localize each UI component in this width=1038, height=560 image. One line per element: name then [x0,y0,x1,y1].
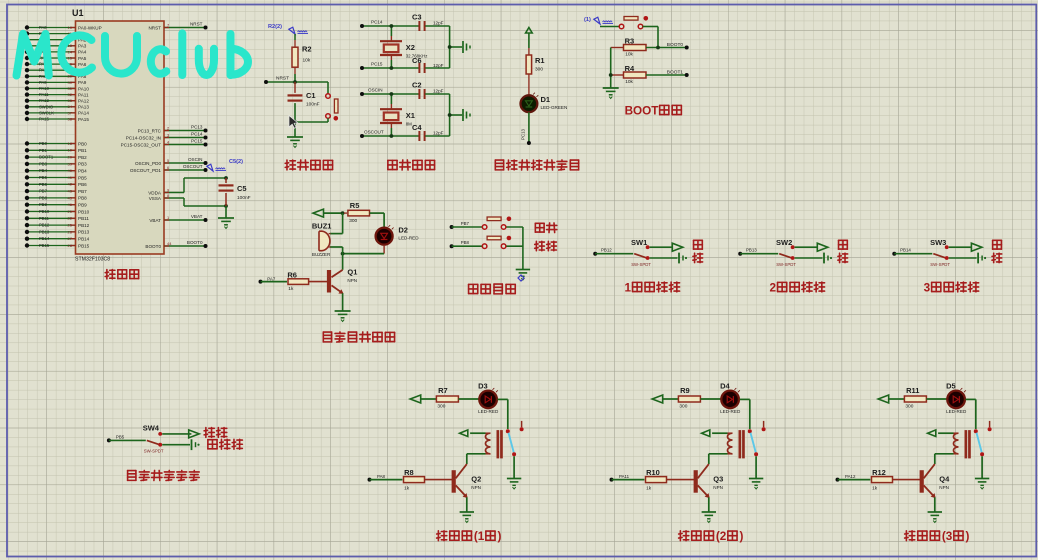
svg-text:Q1: Q1 [347,268,357,277]
svg-text:PB12: PB12 [39,223,50,228]
svg-text:PB8: PB8 [78,196,87,201]
svg-text:39: 39 [68,161,73,166]
svg-text:R8: R8 [404,468,414,477]
svg-text:BOOT0: BOOT0 [187,240,203,245]
svg-text:C1: C1 [306,91,316,100]
svg-text:PB5: PB5 [39,175,48,180]
svg-text:BOOT1: BOOT1 [667,69,684,75]
svg-text:OSCIN_PD0: OSCIN_PD0 [135,161,161,166]
svg-text:PB7: PB7 [461,221,470,226]
svg-text:PB1: PB1 [39,148,48,153]
svg-text:27: 27 [68,236,73,241]
svg-text:PB3: PB3 [78,162,87,167]
svg-text:SW1: SW1 [631,238,647,247]
svg-text:NRST: NRST [276,76,289,82]
svg-text:PB15: PB15 [39,243,50,248]
svg-text:PB8: PB8 [39,195,48,200]
svg-text:C6: C6 [412,56,422,65]
svg-text:PA12: PA12 [845,474,856,479]
svg-text:45: 45 [68,195,73,200]
svg-text:28: 28 [68,243,73,248]
svg-text:100nF: 100nF [237,195,251,201]
svg-text:PB9: PB9 [39,202,48,207]
svg-text:PB6: PB6 [39,182,48,187]
svg-text:SW-SPDT: SW-SPDT [144,449,164,454]
svg-text:PA15: PA15 [78,117,89,122]
svg-text:LED-RED: LED-RED [478,409,499,414]
svg-text:R10: R10 [646,468,660,477]
svg-text:BOOT0: BOOT0 [667,42,684,48]
svg-text:R11: R11 [906,386,919,395]
svg-text:PA5: PA5 [78,56,87,61]
svg-text:PB3: PB3 [39,161,48,166]
svg-text:R2: R2 [302,45,312,54]
svg-text:VBAT: VBAT [191,214,203,219]
svg-text:X2: X2 [406,43,415,52]
svg-text:PA14: PA14 [78,111,89,116]
svg-text:PC14-OSC32_IN: PC14-OSC32_IN [126,135,161,140]
svg-text:STM32F103C8: STM32F103C8 [75,257,110,263]
svg-text:PA11: PA11 [619,474,630,479]
svg-text:PA0: PA0 [39,25,47,30]
svg-text:PB0: PB0 [39,141,48,146]
svg-text:19: 19 [68,148,73,153]
svg-text:PB10: PB10 [78,209,90,214]
svg-text:NPN: NPN [347,278,357,283]
svg-text:PB0: PB0 [78,141,87,146]
svg-text:PA10: PA10 [78,86,89,91]
svg-text:PC14: PC14 [371,20,383,25]
svg-text:37: 37 [68,110,73,115]
svg-text:NPN: NPN [471,485,481,490]
svg-text:NPN: NPN [713,485,723,490]
svg-text:Q4: Q4 [939,474,950,483]
svg-text:PB13: PB13 [78,230,90,235]
svg-text:): ) [966,530,970,543]
svg-text:PA7: PA7 [267,276,276,281]
svg-text:PB4: PB4 [78,169,87,174]
svg-text:LED-RED: LED-RED [398,236,419,241]
svg-text:18: 18 [68,141,73,146]
svg-text:20: 20 [68,155,73,160]
svg-text:SWCLK: SWCLK [39,110,54,115]
svg-text:SW-SPDT: SW-SPDT [631,262,651,267]
svg-text:PA3: PA3 [78,44,87,49]
svg-text:(3: (3 [942,530,953,543]
svg-text:OSCIN: OSCIN [188,157,203,162]
svg-text:D5: D5 [946,381,956,390]
svg-text:R3: R3 [625,37,635,46]
svg-text:BOOT1: BOOT1 [39,155,54,160]
svg-text:26: 26 [68,229,73,234]
svg-text:C3: C3 [412,13,422,22]
svg-text:C5: C5 [237,184,247,193]
svg-text:): ) [498,530,502,543]
svg-text:PB2: PB2 [78,155,87,160]
svg-text:PB10: PB10 [39,209,50,214]
svg-text:Q2: Q2 [471,474,481,483]
svg-text:32: 32 [68,92,73,97]
svg-text:OSCOUT: OSCOUT [183,164,203,169]
svg-text:PB7: PB7 [39,189,48,194]
svg-text:PA8: PA8 [377,474,386,479]
svg-text:46: 46 [68,202,73,207]
svg-text:1k: 1k [288,286,294,292]
svg-text:VDDA: VDDA [148,190,162,195]
svg-text:(2: (2 [716,530,727,543]
svg-text:PB13: PB13 [746,248,757,253]
svg-text:PB1: PB1 [78,148,87,153]
svg-text:D2: D2 [398,226,408,235]
svg-text:15: 15 [68,55,73,60]
svg-text:21: 21 [68,209,73,214]
svg-text:R6: R6 [287,270,297,279]
svg-text:OSCOUT_PD1: OSCOUT_PD1 [130,168,162,173]
svg-text:PB14: PB14 [900,248,911,253]
svg-text:PB8: PB8 [461,240,470,245]
svg-text:10k: 10k [625,79,633,85]
svg-text:30: 30 [68,80,73,85]
svg-text:OSCOUT: OSCOUT [364,130,384,135]
svg-text:300: 300 [679,404,687,410]
svg-text:NPN: NPN [939,485,949,490]
svg-text:OSCIN: OSCIN [368,88,383,93]
svg-text:LED-RED: LED-RED [720,409,741,414]
svg-text:BUZ1: BUZ1 [312,222,332,231]
svg-text:12pF: 12pF [433,89,444,94]
svg-text:VSSA: VSSA [149,196,162,201]
svg-text:300: 300 [437,404,445,410]
svg-text:14: 14 [68,49,73,54]
svg-text:33: 33 [68,98,73,103]
svg-text:PA10: PA10 [39,86,50,91]
svg-text:SW-SPDT: SW-SPDT [930,262,950,267]
svg-text:PB12: PB12 [78,223,90,228]
svg-text:PA0-WKUP: PA0-WKUP [78,25,102,30]
svg-text:BUZZER: BUZZER [312,252,331,257]
svg-text:R5: R5 [350,201,360,210]
svg-text:PB11: PB11 [39,216,50,221]
svg-text:22: 22 [68,216,73,221]
svg-text:PB15: PB15 [78,243,90,248]
svg-text:(1): (1) [584,17,591,23]
svg-text:PC13_RTC: PC13_RTC [138,128,162,133]
svg-text:PB9: PB9 [78,203,87,208]
svg-text:VBAT: VBAT [149,218,161,223]
svg-text:1k: 1k [404,486,410,492]
svg-text:300: 300 [349,218,357,224]
svg-text:12pF: 12pF [433,63,444,68]
svg-text:42: 42 [68,182,73,187]
svg-text:PB12: PB12 [601,248,612,253]
svg-text:SW4: SW4 [143,424,160,433]
svg-text:34: 34 [68,104,73,109]
svg-text:PA12: PA12 [39,98,50,103]
svg-text:BOOT: BOOT [625,104,660,117]
svg-text:PA12: PA12 [78,99,89,104]
svg-text:SW-SPDT: SW-SPDT [776,262,796,267]
svg-text:PB6: PB6 [78,182,87,187]
svg-text:31: 31 [68,86,73,91]
svg-text:PA15: PA15 [39,117,50,122]
svg-text:PB5: PB5 [78,175,87,180]
svg-text:NRST: NRST [190,22,203,27]
svg-text:X1: X1 [406,111,415,120]
svg-text:PB13: PB13 [39,229,50,234]
svg-text:10: 10 [68,25,73,30]
svg-text:D3: D3 [478,381,488,390]
svg-text:43: 43 [68,189,73,194]
svg-text:PB4: PB4 [39,168,48,173]
svg-text:LED-GREEN: LED-GREEN [541,105,568,110]
svg-text:PB5: PB5 [116,434,125,439]
svg-text:10k: 10k [625,52,633,58]
svg-text:PA9: PA9 [39,80,47,85]
svg-text:PC14: PC14 [191,132,203,137]
svg-text:R7: R7 [438,386,448,395]
svg-text:(1: (1 [474,530,485,543]
svg-text:PA13: PA13 [78,105,89,110]
svg-text:PA9: PA9 [78,80,87,85]
svg-text:PB7: PB7 [78,189,87,194]
svg-text:1k: 1k [646,486,652,492]
svg-text:SW3: SW3 [930,238,946,247]
svg-text:): ) [740,530,744,543]
svg-text:R2(2): R2(2) [268,24,282,30]
svg-text:PC15-OSC32_OUT: PC15-OSC32_OUT [121,142,162,147]
svg-text:U1: U1 [72,8,84,18]
svg-text:PA4: PA4 [78,50,87,55]
svg-text:12pF: 12pF [433,131,444,136]
svg-text:41: 41 [68,175,73,180]
svg-text:D1: D1 [541,95,551,104]
svg-text:PB14: PB14 [39,236,50,241]
svg-text:PB14: PB14 [78,237,90,242]
svg-text:PC15: PC15 [371,62,383,67]
svg-text:D4: D4 [720,381,730,390]
svg-text:R9: R9 [680,386,690,395]
svg-text:100nF: 100nF [306,102,320,108]
svg-text:PC13: PC13 [521,128,526,140]
svg-text:PA6: PA6 [78,62,87,67]
svg-text:C4: C4 [412,123,422,132]
svg-text:PA11: PA11 [78,92,89,97]
svg-text:R12: R12 [872,468,886,477]
svg-text:12pF: 12pF [433,21,444,26]
svg-text:3: 3 [924,281,931,294]
svg-text:10k: 10k [303,58,311,64]
svg-text:300: 300 [905,404,913,410]
svg-text:SWDIO: SWDIO [39,104,54,109]
svg-text:PC15: PC15 [191,139,203,144]
svg-text:40: 40 [68,168,73,173]
svg-text:300: 300 [535,67,543,73]
svg-text:25: 25 [68,223,73,228]
svg-text:PB11: PB11 [78,216,89,221]
svg-text:PC13: PC13 [191,125,203,130]
svg-text:2: 2 [770,281,777,294]
svg-text:44: 44 [167,241,172,246]
svg-text:PA11: PA11 [39,92,49,97]
svg-text:LED-RED: LED-RED [946,409,967,414]
svg-text:R4: R4 [625,64,635,73]
svg-text:SW2: SW2 [776,238,792,247]
svg-text:Q3: Q3 [713,474,723,483]
svg-text:38: 38 [68,116,73,121]
svg-text:C2: C2 [412,81,422,90]
svg-text:BOOT0: BOOT0 [145,244,161,249]
svg-text:R1: R1 [535,56,545,65]
svg-text:C5(2): C5(2) [229,159,243,165]
svg-text:1: 1 [625,281,632,294]
svg-text:NRST: NRST [148,25,161,30]
svg-text:1k: 1k [872,486,878,492]
